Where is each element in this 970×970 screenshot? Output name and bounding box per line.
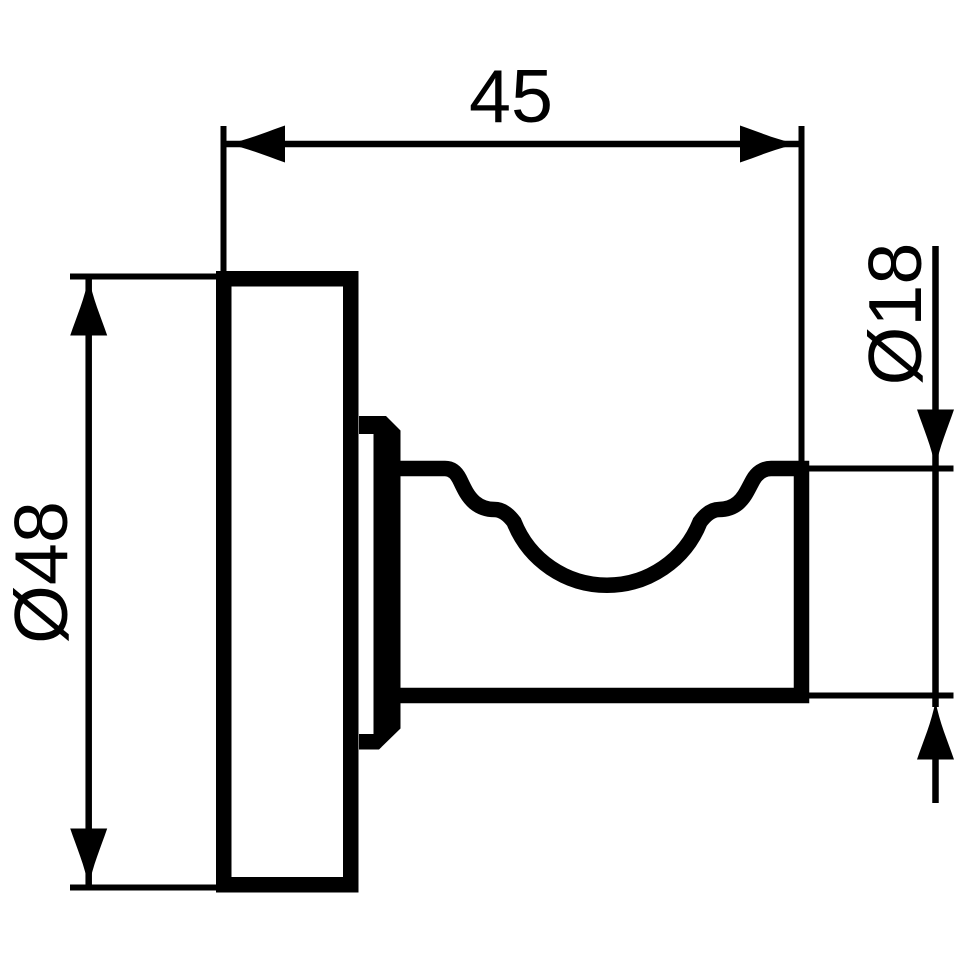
svg-text:Ø48: Ø48	[0, 501, 83, 644]
svg-text:45: 45	[469, 54, 553, 138]
svg-text:Ø18: Ø18	[853, 243, 937, 386]
dimension 45: dimension line	[226, 141, 799, 148]
dimension D18: lower dimension line tail	[932, 759, 939, 803]
dimension D48: top arrowhead	[70, 277, 107, 336]
dimension D48: top extension line	[70, 274, 227, 280]
collar white sliver gap	[359, 434, 374, 734]
dimension 45: right extension line	[799, 126, 805, 462]
dimension D18: dimension line	[932, 246, 939, 707]
dimension D18: bottom extension line	[807, 693, 954, 699]
dimension D48: dimension line	[85, 279, 92, 885]
dimension 45: right arrowhead	[740, 126, 799, 163]
dimension 45: left extension line	[221, 126, 227, 278]
mounting collar behind plate	[359, 416, 401, 750]
dimension D48: bottom extension line	[70, 885, 218, 891]
dimension D48: bottom arrowhead	[70, 829, 107, 888]
wall plate (side view rectangle)	[224, 279, 351, 885]
dimension D18: lower arrowhead pointing up	[917, 701, 954, 760]
hook body outline with scalloped saddle	[396, 469, 802, 696]
dimension D18: upper arrowhead pointing down	[917, 410, 954, 469]
dimension 45: left arrowhead	[227, 126, 286, 163]
dimension D18: top extension line	[806, 466, 954, 472]
